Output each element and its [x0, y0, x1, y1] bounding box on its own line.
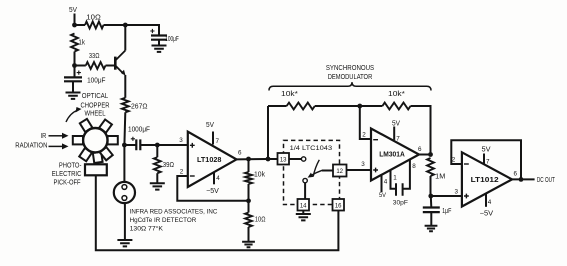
op-amp U2 LM301A — [371, 129, 419, 181]
wire node F down to R6 — [248, 159, 250, 172]
svg-text:5V: 5V — [379, 192, 387, 199]
node D (detector / cap junction) — [122, 143, 127, 148]
LTC1043 pin 14 box — [298, 199, 310, 211]
capacitor C2 100uF — [64, 77, 82, 81]
ground under R5 — [150, 183, 165, 189]
node G (divider mid) — [246, 198, 251, 203]
transistor Q1 — [114, 57, 117, 70]
IR arrow upper — [49, 135, 64, 137]
wire R6 to node G — [248, 184, 250, 201]
node E (39ohm junction) — [155, 143, 160, 148]
svg-text:1: 1 — [393, 175, 397, 182]
wire node C to R3 — [75, 65, 86, 67]
wire C1 to ground — [158, 40, 160, 46]
wire node E down to R5 — [156, 145, 158, 157]
wire node G to U1 -in (pin 2) — [177, 176, 248, 201]
svg-text:1k: 1k — [78, 40, 85, 47]
svg-text:2: 2 — [362, 132, 366, 139]
photo-electric pick-off — [85, 164, 107, 175]
switch contact lower — [303, 178, 307, 182]
wire detector to ground — [124, 203, 126, 240]
resistor R7 10ohm — [245, 213, 252, 228]
svg-text:7: 7 — [486, 158, 490, 165]
wire node E to U1 +in (pin 3) — [157, 144, 188, 146]
wire node C to C2 — [74, 66, 76, 78]
wire pin12 to U2 +in (pin 3) — [347, 169, 372, 171]
resistor R9 10k* — [382, 103, 410, 110]
capacitor C3 1000uF coupling — [136, 139, 140, 150]
wire R4 to node D — [123, 112, 126, 145]
LTC1043 pin 16 box — [333, 199, 345, 211]
IR detector (HgCdTe) — [114, 182, 135, 203]
svg-text:2: 2 — [180, 169, 184, 176]
svg-text:10k*: 10k* — [281, 91, 298, 98]
node A (5V / 10ohm / 1k junction) — [72, 23, 77, 28]
ground under detector — [117, 240, 132, 246]
svg-text:1/4 LTC1043: 1/4 LTC1043 — [290, 145, 333, 152]
svg-text:16: 16 — [335, 203, 342, 209]
wire node B to C1 — [125, 25, 159, 36]
IR arrow lower — [49, 145, 64, 147]
wire U2 pin4 — [381, 175, 383, 192]
switch contact upper — [301, 157, 305, 161]
wire Q1 collector up — [124, 25, 126, 51]
wire lower contact to pin 14 box — [304, 183, 306, 199]
svg-text:PICK-OFF: PICK-OFF — [54, 180, 81, 187]
wire node I to R9 — [360, 105, 383, 107]
svg-text:10k: 10k — [254, 171, 265, 178]
wire node K to U3 +in (pin 3) — [431, 195, 462, 197]
svg-text:30pF: 30pF — [393, 199, 408, 206]
svg-text:5V: 5V — [482, 147, 491, 154]
svg-text:10Ω: 10Ω — [255, 217, 266, 224]
LTC1043 pin 13 box — [278, 153, 290, 165]
svg-text:RADIATION: RADIATION — [15, 143, 47, 150]
wire 5V to node A — [74, 14, 76, 26]
svg-text:ELECTRIC: ELECTRIC — [52, 171, 82, 178]
ground under pin 14 — [296, 214, 311, 220]
ground under C2 — [66, 93, 81, 99]
node L (U3 out) — [519, 177, 524, 182]
wire R9 to node J — [411, 106, 431, 155]
wire R1 to node B — [104, 24, 126, 26]
svg-text:10Ω: 10Ω — [86, 15, 101, 22]
wire U2 output to node J — [419, 154, 431, 156]
node K (filter mid) — [428, 194, 433, 199]
wire R3 to Q1 base — [106, 65, 116, 67]
svg-text:IR: IR — [41, 133, 47, 140]
svg-text:267Ω: 267Ω — [131, 104, 148, 111]
svg-text:4: 4 — [384, 179, 388, 186]
svg-text:6: 6 — [514, 171, 518, 178]
wire pick-off to sync bus — [96, 175, 339, 250]
resistor R6 10k — [245, 172, 252, 184]
node H (feedback tap before LTC1043) — [266, 157, 271, 162]
optical chopper wheel — [73, 119, 118, 163]
svg-text:8: 8 — [412, 163, 416, 170]
wire U3 pin2 feedback loop — [451, 140, 521, 179]
wire C3 to node E — [140, 144, 157, 146]
wire U1 pin7 to 5V — [212, 132, 214, 145]
svg-text:6: 6 — [418, 146, 422, 153]
svg-text:7: 7 — [216, 138, 220, 145]
svg-text:−5V: −5V — [480, 211, 494, 218]
wire U2 pin7 to 5V — [393, 127, 395, 140]
wire U1 output — [237, 158, 269, 160]
wire node A to R1 — [75, 24, 86, 26]
svg-text:2: 2 — [452, 157, 456, 164]
wire node D to C3 — [124, 144, 136, 146]
rotation arrow — [66, 110, 78, 122]
ground under C5 — [425, 226, 438, 231]
resistor R3 33ohm — [86, 62, 106, 69]
wire pin13 to contact — [289, 158, 301, 160]
capacitor C1 100uF bypass — [151, 36, 167, 40]
wire C2 to ground — [72, 81, 74, 92]
op-amp U1 LT1028 — [188, 132, 237, 187]
switch lever arrow — [311, 170, 323, 175]
svg-text:7: 7 — [396, 135, 400, 142]
resistor R4 267ohm — [122, 98, 129, 113]
capacitor C5 1uF filter — [423, 208, 440, 213]
svg-text:4: 4 — [216, 175, 220, 182]
svg-text:100μF: 100μF — [87, 78, 105, 85]
svg-text:5V: 5V — [69, 7, 77, 14]
resistor R10 1M — [427, 158, 434, 176]
node J (U2 out / demod feedback) — [428, 152, 433, 157]
svg-text:OPTICAL: OPTICAL — [82, 93, 108, 100]
svg-text:5V: 5V — [392, 120, 400, 127]
ground under C1 — [152, 46, 167, 52]
node I (U2 -in tap) — [357, 104, 362, 109]
svg-text:33Ω: 33Ω — [89, 53, 100, 60]
wire node G to R7 — [248, 201, 250, 213]
svg-text:3: 3 — [179, 137, 183, 144]
LTC1043 dashed outline — [284, 140, 340, 204]
wire U1 pin4 to -5V — [213, 172, 215, 184]
wire node K to C5 — [430, 196, 433, 208]
resistor R1 10ohm — [85, 22, 104, 29]
node C (1k / 33ohm / 100uF junction) — [72, 63, 77, 68]
svg-text:100μF: 100μF — [165, 36, 179, 43]
capacitor C4 30pF compensation — [396, 183, 403, 196]
svg-text:1M: 1M — [435, 174, 445, 181]
svg-text:39Ω: 39Ω — [163, 162, 174, 169]
wire pin14 to ground — [302, 211, 304, 215]
svg-text:LT1028: LT1028 — [197, 155, 221, 164]
LTC1043 pin 12 box — [333, 165, 347, 177]
wire lever to pin 12 box — [322, 170, 333, 172]
wire R7 to ground — [248, 227, 250, 242]
node B (collector rail junction) — [123, 23, 128, 28]
wire node D to detector — [123, 145, 125, 182]
svg-text:WHEEL: WHEEL — [85, 111, 106, 118]
svg-text:13: 13 — [280, 157, 287, 163]
wire U3 pin7 to 5V — [483, 154, 485, 165]
wire U3 pin4 to -5V — [485, 193, 487, 206]
wire C5 to ground — [430, 212, 432, 226]
svg-text:DEMODULATOR: DEMODULATOR — [328, 72, 373, 81]
svg-text:1000μF: 1000μF — [128, 127, 150, 134]
svg-text:PHOTO-: PHOTO- — [59, 163, 82, 170]
svg-text:−5V: −5V — [206, 188, 219, 195]
node F (output / 10k divider tap) — [246, 157, 251, 162]
wire Q1 emitter down — [124, 75, 126, 98]
svg-text:CHOPPER: CHOPPER — [81, 102, 110, 109]
wire R10 to node K — [430, 176, 432, 196]
svg-text:1μF: 1μF — [442, 208, 451, 215]
svg-text:12: 12 — [336, 169, 343, 175]
svg-text:14: 14 — [300, 203, 307, 209]
svg-text:3: 3 — [455, 188, 459, 195]
svg-text:INFRA RED ASSOCIATES, INC: INFRA RED ASSOCIATES, INC — [130, 209, 218, 216]
wire node H up to 10k* — [267, 106, 269, 159]
svg-text:LT1012: LT1012 — [471, 175, 499, 184]
ground under R7 — [242, 242, 255, 247]
wire node H to R8 — [268, 105, 287, 107]
svg-text:LM301A: LM301A — [379, 150, 405, 159]
resistor R8 10k* — [287, 103, 315, 110]
svg-text:5V: 5V — [206, 122, 214, 129]
resistor R2 1k — [71, 34, 78, 52]
svg-text:130Ω 77°K: 130Ω 77°K — [130, 225, 164, 233]
wire node I down to U2 pin 2 — [360, 106, 371, 139]
wire R2 down to node C — [74, 52, 76, 66]
wire U2 pin8 — [403, 159, 410, 189]
svg-text:DC OUT: DC OUT — [537, 177, 555, 184]
op-amp U3 LT1012 — [462, 152, 512, 206]
wire U3 output to DC OUT — [512, 178, 535, 180]
svg-text:4: 4 — [488, 199, 492, 206]
wire R5 to ground — [156, 173, 158, 183]
svg-text:6: 6 — [238, 150, 242, 157]
resistor R5 39ohm — [154, 157, 161, 173]
brace over demodulator — [269, 82, 431, 90]
wire R8 to node I — [315, 105, 360, 107]
svg-text:3: 3 — [361, 161, 365, 168]
svg-text:10k*: 10k* — [388, 91, 405, 98]
wire U2 pin1 — [391, 170, 397, 189]
wire node H to pin 13 box — [268, 158, 278, 160]
svg-text:HgCdTe IR DETECTOR: HgCdTe IR DETECTOR — [130, 217, 197, 224]
